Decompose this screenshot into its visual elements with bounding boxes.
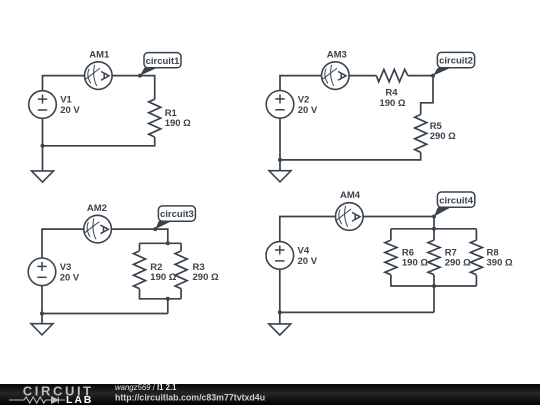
svg-text:AM1: AM1 <box>89 50 110 61</box>
svg-text:AM4: AM4 <box>340 190 361 201</box>
node junction dot at circuit3 <box>153 227 157 231</box>
label V4 20 V <box>298 246 318 268</box>
label V1 20 V <box>60 95 80 117</box>
node junction dot V1 bottom <box>41 144 45 148</box>
svg-text:290 Ω: 290 Ω <box>193 272 219 283</box>
node junction dot bank top <box>432 227 436 231</box>
svg-text:20 V: 20 V <box>60 105 80 116</box>
svg-text:20 V: 20 V <box>60 273 80 284</box>
wire top bar of parallel bank <box>140 243 182 251</box>
svg-text:190 Ω: 190 Ω <box>150 272 176 283</box>
label R3 290 Ω <box>193 262 219 283</box>
node junction dot bank top <box>166 241 170 245</box>
svg-text:V4: V4 <box>298 246 310 257</box>
voltage source V2 <box>266 91 294 119</box>
label V2 20 V <box>298 95 318 117</box>
svg-text:V3: V3 <box>60 262 72 273</box>
voltage source V4 <box>266 242 294 270</box>
ammeter AM3 <box>322 62 350 90</box>
ammeter AM1 <box>85 62 113 90</box>
node junction dot V4 bottom <box>278 310 282 314</box>
node flag circuit2 <box>433 52 475 75</box>
svg-text:V1: V1 <box>60 95 72 106</box>
svg-text:20 V: 20 V <box>298 256 318 267</box>
label R1 190 Ω <box>165 108 191 129</box>
svg-text:http://circuitlab.com/c83m77tv: http://circuitlab.com/c83m77tvtxd4u <box>115 392 265 402</box>
svg-text:290 Ω: 290 Ω <box>445 258 471 269</box>
wire top: V4 to circuit4 node <box>280 217 434 243</box>
ammeter AM2 <box>84 215 112 243</box>
node flag circuit3 <box>155 206 195 229</box>
svg-text:20 V: 20 V <box>298 105 318 116</box>
svg-text:390 Ω: 390 Ω <box>487 258 513 269</box>
resistor R2 <box>134 251 146 289</box>
label V3 20 V <box>60 262 80 284</box>
ground circuit 1 <box>32 171 54 182</box>
wire bottom: bank to V3 <box>42 286 168 324</box>
resistor R1 <box>149 99 161 137</box>
svg-text:190 Ω: 190 Ω <box>379 98 405 109</box>
wire bottom: R1 to V1 <box>43 118 155 171</box>
label R5 290 Ω <box>430 121 456 142</box>
node junction dot bank bottom <box>166 297 170 301</box>
resistor R6 <box>385 240 397 275</box>
logo resistor + diode line <box>9 397 65 404</box>
node flag circuit4 <box>434 192 475 217</box>
wire jog down to R5 <box>421 76 433 115</box>
voltage source V3 <box>28 258 56 286</box>
voltage source V1 <box>29 91 57 119</box>
svg-text:AM2: AM2 <box>87 203 107 214</box>
node junction dot at circuit1 <box>138 74 142 78</box>
wire bottom: bank to V4 <box>280 269 434 324</box>
svg-text:circuit4: circuit4 <box>439 195 474 206</box>
wire top: V3 to bank corner <box>42 229 168 258</box>
label R4 190 Ω <box>379 88 405 110</box>
label R8 390 Ω <box>487 248 513 269</box>
svg-text:LAB: LAB <box>66 394 93 405</box>
svg-text:circuit3: circuit3 <box>160 209 194 220</box>
svg-text:290 Ω: 290 Ω <box>430 131 456 142</box>
label R2 190 Ω <box>150 262 176 283</box>
wire R4 to circuit2 node <box>408 75 433 77</box>
svg-text:V2: V2 <box>298 95 310 106</box>
node junction dot V2 bottom <box>278 158 282 162</box>
label R6 190 Ω <box>402 248 428 269</box>
ground circuit 4 <box>269 324 291 335</box>
wire top: V1 to R1 corner <box>43 76 155 100</box>
label R7 290 Ω <box>445 248 471 269</box>
node junction dot at circuit2 <box>431 74 435 78</box>
ground circuit 2 <box>269 171 291 182</box>
svg-text:AM3: AM3 <box>327 50 347 61</box>
svg-text:wangz569 / l1 2.1: wangz569 / l1 2.1 <box>115 382 177 392</box>
wire bottom: R5 to V2 <box>280 118 421 171</box>
wire top bar of parallel bank <box>391 229 477 240</box>
resistor R8 <box>470 240 482 275</box>
node junction dot bank bottom <box>432 284 436 288</box>
ground circuit 3 <box>31 324 53 335</box>
resistor R3 <box>175 251 187 289</box>
svg-text:R4: R4 <box>385 88 398 99</box>
node flag circuit1 <box>140 53 181 76</box>
resistor R7 <box>428 240 440 275</box>
svg-text:circuit1: circuit1 <box>146 56 181 67</box>
wire bottom bar of parallel bank <box>391 275 477 313</box>
svg-text:circuit2: circuit2 <box>439 56 473 67</box>
svg-text:190 Ω: 190 Ω <box>165 118 191 129</box>
ammeter AM4 <box>336 203 364 231</box>
resistor R4 <box>376 69 408 81</box>
wire top: V2 to R4 <box>280 76 376 91</box>
resistor R5 <box>415 115 427 153</box>
wire bottom bar of parallel bank <box>140 289 182 314</box>
svg-text:190 Ω: 190 Ω <box>402 258 428 269</box>
node junction dot at circuit4 <box>432 215 436 219</box>
node junction dot V3 bottom <box>40 312 44 316</box>
